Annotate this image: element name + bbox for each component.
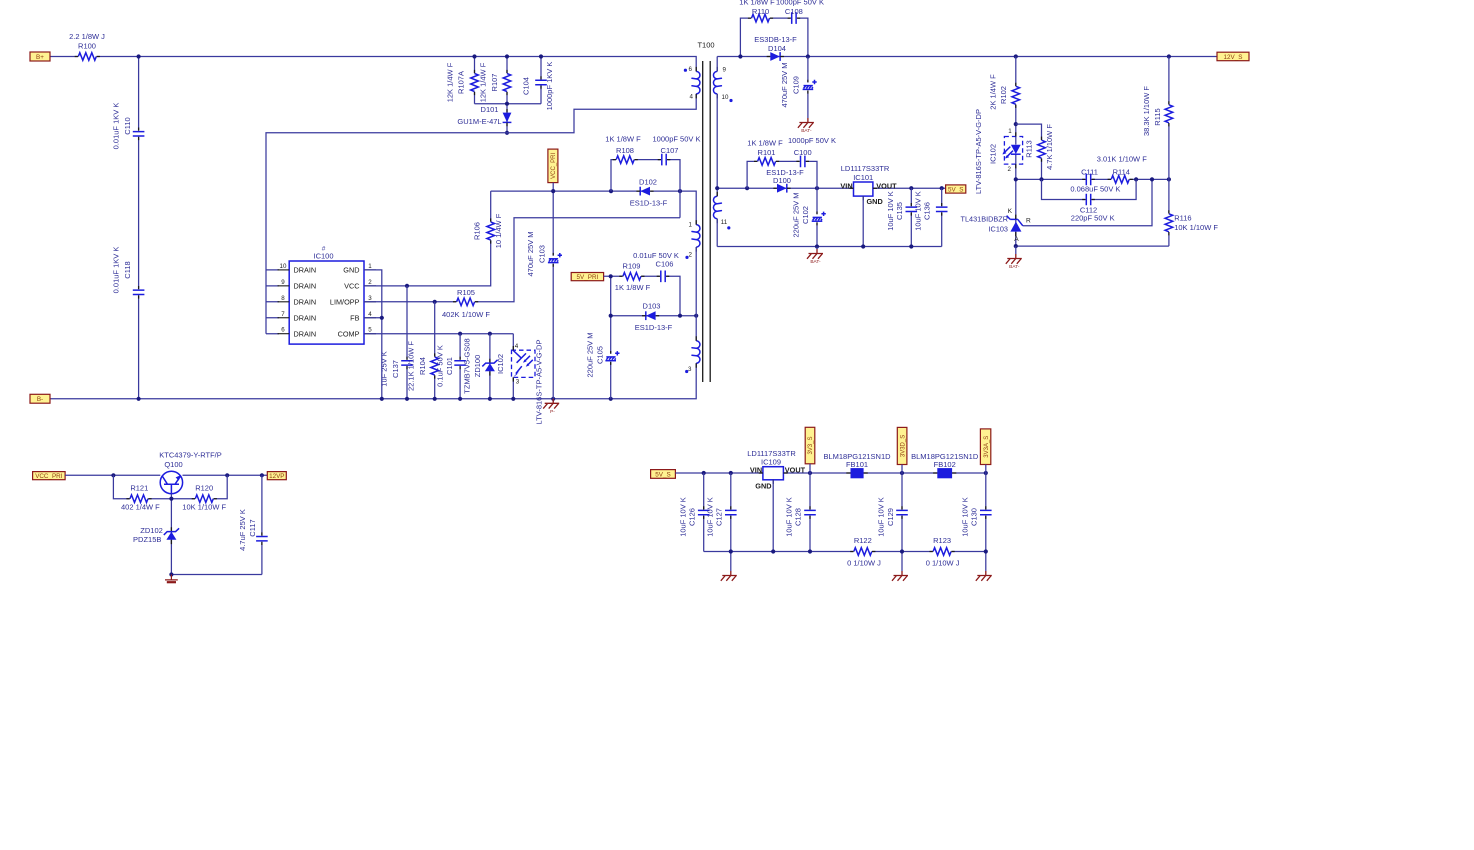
resistor R115 [1142, 86, 1174, 136]
junction Q100 rail [111, 473, 264, 477]
svg-text:R: R [1026, 218, 1031, 225]
svg-text:1K 1/8W F: 1K 1/8W F [739, 0, 775, 7]
svg-text:R121: R121 [130, 484, 148, 493]
svg-text:C102: C102 [801, 206, 810, 224]
svg-text:4: 4 [368, 311, 372, 318]
svg-text:R122: R122 [854, 536, 872, 545]
node 5V_S bottom [651, 470, 676, 479]
wire IC109 GND pin [772, 480, 774, 552]
svg-text:3V3_S: 3V3_S [808, 437, 814, 455]
svg-text:FB101: FB101 [846, 460, 868, 469]
svg-text:VCC_PRI: VCC_PRI [551, 153, 557, 179]
svg-text:3.01K 1/10W F: 3.01K 1/10W F [1097, 155, 1147, 164]
transformer secondary winding 9-10 [713, 67, 732, 103]
svg-text:DRAIN: DRAIN [294, 266, 317, 275]
svg-text:8: 8 [281, 295, 285, 302]
svg-text:2: 2 [689, 252, 693, 259]
wire IC100 pin5 COMP row [364, 333, 513, 335]
svg-text:11: 11 [721, 219, 728, 226]
capacitor C129 [877, 497, 909, 537]
diode D100 [766, 168, 804, 193]
wire secondary 5V rail [717, 187, 945, 189]
svg-text:C108: C108 [785, 7, 803, 16]
wire R102 LED TL431 column [1015, 57, 1017, 247]
ground under C127 [721, 571, 737, 581]
wire C127 column to ground [730, 473, 732, 571]
wire 3V3D_S stub and C129 column to ground [901, 465, 903, 572]
svg-text:COMP: COMP [338, 329, 360, 338]
wire 5V_PRI row R109 C106 loop [604, 276, 680, 315]
resistor R101 [747, 139, 783, 167]
wire 3V3A_S stub and C130 column to ground [985, 465, 987, 572]
zener diode ZD102 [133, 526, 179, 544]
svg-text:DRAIN: DRAIN [294, 313, 317, 322]
svg-text:C104: C104 [522, 77, 531, 95]
wire 5V_S rail to IC109 and ferrite beads [675, 472, 985, 474]
svg-text:C128: C128 [794, 508, 803, 526]
svg-text:220pF 50V K: 220pF 50V K [1071, 214, 1115, 223]
svg-text:0.01uF 1KV K: 0.01uF 1KV K [112, 103, 121, 150]
svg-text:0.068uF 50V K: 0.068uF 50V K [1070, 185, 1120, 194]
svg-text:D104: D104 [768, 44, 786, 53]
svg-text:0.1uF 50V K: 0.1uF 50V K [435, 345, 444, 387]
ground BAT- under C102 [807, 247, 823, 266]
svg-text:BAT-: BAT- [810, 259, 821, 265]
node VCC_PRI bottom left [33, 472, 66, 480]
wire IC100 pin3 LIM/OPP to R105 loop [364, 218, 680, 302]
svg-text:PDZ15B: PDZ15B [133, 535, 161, 544]
junction 3V3 rail [702, 471, 988, 475]
svg-text:C126: C126 [688, 508, 697, 526]
svg-text:IC102: IC102 [496, 354, 505, 374]
regulator IC109 LD1117 [747, 449, 805, 490]
svg-text:5V_S: 5V_S [948, 186, 963, 193]
ground BAT- under C109 [798, 118, 814, 128]
svg-text:22.1K 1/10W F: 22.1K 1/10W F [407, 341, 416, 391]
node 3V3D_S [897, 427, 907, 464]
svg-text:3: 3 [516, 379, 520, 386]
svg-text:ES1D-13-F: ES1D-13-F [635, 323, 673, 332]
svg-text:10uF 10V K: 10uF 10V K [705, 497, 714, 537]
wire VCC_PRI rail to transformer pin 1 [491, 191, 697, 225]
svg-text:IC103: IC103 [989, 225, 1008, 234]
node 12VP [267, 472, 286, 480]
svg-text:LTV-816S-TP-A5-V-G-DP: LTV-816S-TP-A5-V-G-DP [535, 340, 544, 425]
shunt reference IC103 TL431 [961, 208, 1031, 243]
wire bottom left ground rail [171, 574, 262, 576]
capacitor C126 [678, 497, 710, 537]
svg-text:IC102: IC102 [989, 144, 998, 164]
svg-text:10K 1/10W F: 10K 1/10W F [182, 503, 226, 512]
node 5V_PRI [571, 273, 603, 282]
svg-text:5V_PRI: 5V_PRI [577, 274, 599, 281]
svg-text:9: 9 [281, 279, 285, 286]
svg-text:VOUT: VOUT [876, 181, 897, 190]
resistor R107 [479, 62, 513, 102]
wire left vertical bulk rail [138, 57, 140, 399]
svg-text:4: 4 [515, 343, 519, 350]
svg-text:TZMB7V5-GS08: TZMB7V5-GS08 [463, 338, 472, 393]
junction snubber top rail [472, 54, 543, 105]
ground under C129 [892, 571, 908, 581]
svg-text:TL431BIDBZR: TL431BIDBZR [961, 214, 1008, 223]
resistor R122 [847, 536, 881, 568]
svg-text:12K 1/4W F: 12K 1/4W F [446, 62, 455, 102]
node 3V3_S [805, 427, 815, 464]
resistor R105 [442, 288, 490, 319]
svg-text:10: 10 [722, 94, 729, 101]
svg-text:1000pF 1KV K: 1000pF 1KV K [545, 62, 554, 111]
node 3V3A_S [980, 429, 990, 465]
capacitor C130 [960, 497, 992, 537]
wire secondary center tap [716, 57, 718, 197]
capacitor C101 [435, 345, 466, 387]
capacitor C102 electrolytic [791, 192, 826, 237]
svg-text:12V_S: 12V_S [1224, 54, 1243, 61]
svg-text:R107: R107 [490, 74, 499, 92]
wire C126 column [703, 473, 705, 552]
resistor R114 [1097, 155, 1147, 185]
svg-text:3V3D_S: 3V3D_S [900, 435, 906, 457]
capacitor C118 [112, 247, 146, 299]
svg-text:D101: D101 [481, 105, 499, 114]
svg-text:402 1/4W F: 402 1/4W F [121, 503, 160, 512]
capacitor C111 [1081, 167, 1098, 186]
svg-text:D102: D102 [639, 178, 657, 187]
diode D104 [754, 35, 797, 61]
node VCC_PRI vertical label [548, 149, 558, 183]
svg-text:B+: B+ [36, 54, 44, 61]
capacitor C136 [913, 191, 948, 231]
diode D102 [630, 178, 668, 208]
svg-text:C127: C127 [715, 508, 724, 526]
capacitor C109 electrolytic [780, 62, 817, 107]
transformer primary winding 3 [685, 336, 700, 373]
svg-text:7: 7 [281, 311, 285, 318]
capacitor C110 [112, 103, 146, 150]
resistor R120 [182, 484, 226, 512]
wire R104 column [434, 302, 436, 399]
transistor Q100 [159, 450, 222, 493]
wire C109 column [807, 57, 809, 119]
junction secondary ground rail [815, 244, 914, 248]
ferrite bead FB101 [823, 452, 891, 478]
svg-text:IC101: IC101 [853, 173, 873, 182]
wire VCC_PRI to Q100 and 12VP [65, 474, 267, 476]
capacitor C103 electrolytic [526, 231, 562, 276]
svg-text:10: 10 [280, 263, 287, 270]
wire B+ top rail to transformer pin 6 [50, 57, 696, 72]
svg-text:220uF 25V M: 220uF 25V M [791, 192, 800, 237]
svg-text:A: A [1014, 236, 1019, 243]
opto transistor IC102 photo side [496, 343, 535, 386]
junction ground node [169, 572, 173, 576]
svg-text:1: 1 [1008, 128, 1012, 135]
svg-text:R113: R113 [1024, 140, 1033, 157]
node 5V_S [946, 185, 966, 194]
capacitor C112 [1071, 193, 1115, 223]
wire C137 column [406, 286, 408, 399]
svg-text:1000pF 50V K: 1000pF 50V K [776, 0, 824, 7]
junction D103 row [609, 314, 699, 318]
svg-text:1: 1 [368, 263, 372, 270]
resistor R106 [473, 213, 504, 248]
svg-text:1K 1/8W F: 1K 1/8W F [747, 139, 783, 148]
wire TL431 ground rail [1016, 245, 1169, 247]
transformer primary winding 1-2 [685, 220, 700, 259]
svg-text:KTC4379-Y-RTF/P: KTC4379-Y-RTF/P [159, 450, 222, 459]
svg-text:IC109: IC109 [761, 457, 781, 466]
diode D103 [635, 302, 673, 332]
wire C135 column [910, 188, 912, 246]
svg-text:470uF 25V M: 470uF 25V M [780, 62, 789, 107]
svg-text:R109: R109 [623, 261, 641, 270]
svg-text:C137: C137 [391, 360, 400, 378]
svg-text:BAT-: BAT- [801, 128, 812, 134]
svg-text:C117: C117 [248, 519, 257, 536]
svg-text:DRAIN: DRAIN [294, 297, 317, 306]
wire 12V_S top rail [717, 56, 1217, 58]
svg-text:ZD102: ZD102 [140, 526, 163, 535]
ground under C130 [976, 571, 992, 581]
svg-text:1K 1/8W F: 1K 1/8W F [605, 134, 641, 143]
svg-text:1K 1/8W F: 1K 1/8W F [615, 283, 651, 292]
resistor R116 [1164, 210, 1218, 235]
svg-text:R104: R104 [418, 357, 427, 375]
svg-text:K: K [1008, 208, 1013, 215]
junction R113 branch [1014, 122, 1018, 126]
svg-text:R123: R123 [933, 536, 951, 545]
svg-text:10uF 10V K: 10uF 10V K [678, 497, 687, 537]
wire IC100 pin1 GND and pin4 FB to B- rail [364, 270, 382, 399]
svg-text:LIM/OPP: LIM/OPP [330, 297, 360, 306]
svg-text:6: 6 [689, 66, 693, 73]
wire C102 column [816, 188, 818, 246]
wire ZD100 column [489, 334, 491, 399]
resistor R107A [446, 62, 480, 102]
node B- [30, 394, 50, 403]
svg-text:D103: D103 [643, 302, 661, 311]
svg-text:R116: R116 [1174, 214, 1191, 223]
zener diode ZD100 [463, 338, 498, 393]
svg-text:1000pF 50V K: 1000pF 50V K [653, 134, 701, 143]
svg-text:38.3K 1/10W F: 38.3K 1/10W F [1142, 86, 1151, 136]
svg-text:470uF 25V M: 470uF 25V M [526, 231, 535, 276]
wire secondary ground rail [717, 246, 942, 248]
svg-text:0 1/10W J: 0 1/10W J [926, 559, 960, 568]
junction B- rail [137, 397, 613, 401]
svg-text:R101: R101 [758, 148, 776, 157]
resistor R104 [407, 341, 440, 391]
svg-text:3: 3 [688, 366, 692, 373]
svg-text:B-: B- [37, 396, 43, 403]
svg-text:2: 2 [1007, 166, 1011, 173]
svg-text:DRAIN: DRAIN [294, 329, 317, 338]
wire transformer pin4 loop to IC100 drains [266, 94, 696, 334]
svg-text:D100: D100 [773, 176, 791, 185]
svg-text:VOUT: VOUT [785, 466, 806, 475]
svg-text:C101: C101 [445, 357, 454, 375]
svg-text:IC100: IC100 [313, 252, 333, 261]
svg-text:ES3DB-13-F: ES3DB-13-F [754, 35, 797, 44]
junction B+ rail [137, 54, 141, 58]
svg-text:0 1/10W J: 0 1/10W J [847, 559, 881, 568]
svg-text:C129: C129 [886, 508, 895, 526]
transformer T100 core [697, 41, 714, 383]
svg-text:VIN: VIN [750, 466, 762, 475]
wire R108 C107 snubber loop [611, 160, 680, 218]
resistor R110 [739, 0, 775, 23]
transformer secondary winding 11 [713, 192, 730, 230]
junction FB [380, 316, 384, 320]
wire 3V3 ground rail [704, 551, 986, 553]
svg-text:R100: R100 [78, 41, 96, 50]
svg-text:3V3A_S: 3V3A_S [984, 436, 990, 458]
svg-text:R115: R115 [1153, 108, 1162, 125]
junction 5V_PRI [609, 274, 613, 278]
svg-text:DRAIN: DRAIN [294, 281, 317, 290]
wire IC100 pin2 VCC to R106 [364, 191, 491, 286]
wire IC100 drain pin stubs [266, 270, 279, 334]
svg-text:C107: C107 [661, 146, 679, 155]
wire R101 C100 loop [747, 161, 817, 188]
svg-text:R105: R105 [457, 288, 475, 297]
junction LIM row [433, 300, 437, 304]
wire C112 loop [1042, 179, 1137, 199]
svg-text:ES1D-13-F: ES1D-13-F [630, 198, 668, 207]
svg-text:10K 1/10W F: 10K 1/10W F [1174, 223, 1218, 232]
wire IC102 phototransistor column [512, 334, 514, 399]
capacitor C127 [705, 497, 737, 537]
ground P- primary [543, 399, 559, 415]
wire IC101 GND pin [862, 196, 864, 246]
junction base node [169, 497, 173, 501]
wire C136 column [941, 188, 943, 246]
capacitor C107 [653, 134, 701, 166]
wire C101 column [459, 334, 461, 399]
svg-text:1000pF 50V K: 1000pF 50V K [788, 136, 836, 145]
svg-text:10uF 10V K: 10uF 10V K [960, 497, 969, 537]
svg-text:10uF 10V K: 10uF 10V K [784, 497, 793, 537]
svg-text:R108: R108 [616, 146, 634, 155]
wire C117 column [261, 475, 263, 574]
svg-text:4.7uF 25V K: 4.7uF 25V K [238, 509, 247, 551]
wire R121 R120 base loop [113, 475, 227, 498]
junction VCC rail [551, 189, 682, 193]
wire snubber verticals and bottom bar [475, 57, 542, 133]
junction D101 anode rail [505, 131, 509, 135]
svg-text:C105: C105 [596, 346, 605, 364]
svg-text:LD1117S33TR: LD1117S33TR [841, 164, 890, 173]
svg-text:GND: GND [343, 266, 359, 275]
capacitor C117 [238, 509, 268, 551]
svg-text:10uF 10V K: 10uF 10V K [913, 191, 922, 231]
wire Q100 base to ZD102 to ground [170, 494, 172, 575]
wire R115 column [1168, 57, 1170, 180]
svg-text:GND: GND [755, 481, 771, 490]
capacitor C108 [776, 0, 824, 25]
svg-text:Q100: Q100 [164, 460, 182, 469]
regulator IC101 LD1117 [840, 164, 897, 206]
junction secondary 5V rail [715, 186, 944, 190]
svg-text:4.7K 1/10W F: 4.7K 1/10W F [1045, 124, 1054, 170]
junction feedback row [1014, 177, 1171, 181]
svg-text:ZD100: ZD100 [473, 355, 482, 378]
svg-text:BAT-: BAT- [1009, 264, 1020, 270]
svg-text:C110: C110 [123, 117, 132, 134]
wire 3V3_S stub and C128 column [809, 464, 811, 552]
wire VCC_PRI label stub and C103 column to P- ground [552, 183, 554, 402]
svg-text:R110: R110 [752, 7, 769, 16]
junction 12V rail [738, 54, 1171, 58]
svg-text:2K 1/4W F: 2K 1/4W F [989, 74, 998, 110]
svg-text:FB102: FB102 [934, 460, 956, 469]
svg-text:10uF 10V K: 10uF 10V K [886, 191, 895, 231]
junction VCC row [405, 284, 409, 288]
capacitor C105 electrolytic [585, 332, 619, 377]
capacitor C100 [788, 136, 836, 168]
wire feedback row [1016, 178, 1169, 180]
ferrite bead FB102 [911, 452, 979, 478]
resistor R108 [605, 134, 641, 164]
svg-text:2.2 1/8W J: 2.2 1/8W J [69, 32, 105, 41]
ground earth under ZD102 [165, 575, 178, 583]
svg-text:C100: C100 [794, 148, 812, 157]
capacitor C128 [784, 497, 816, 537]
wire D103 row [611, 315, 697, 317]
capacitor C104 [522, 62, 555, 111]
wire R116 column [1168, 179, 1170, 246]
resistor R123 [926, 536, 960, 568]
svg-text:6: 6 [281, 327, 285, 334]
svg-text:0.01uF 1KV K: 0.01uF 1KV K [112, 247, 121, 294]
junction TL431 ground [1014, 244, 1018, 248]
wire R113 branch [1016, 124, 1042, 179]
svg-text:LTV-816S-TP-A5-V-G-DP: LTV-816S-TP-A5-V-G-DP [974, 109, 983, 194]
svg-text:R107A: R107A [457, 71, 466, 94]
svg-text:T100: T100 [697, 41, 714, 50]
svg-text:VCC_PRI: VCC_PRI [35, 473, 63, 480]
svg-text:C130: C130 [970, 508, 979, 526]
svg-text:1: 1 [689, 221, 693, 228]
opto LED IC102 side [989, 128, 1023, 173]
ground BAT- under TL431 [1006, 246, 1022, 270]
svg-text:R106: R106 [473, 222, 482, 240]
svg-text:C103: C103 [537, 245, 546, 263]
svg-text:VCC: VCC [344, 281, 359, 290]
diode D101 [457, 105, 511, 126]
svg-text:5V_S: 5V_S [655, 471, 670, 478]
svg-text:3: 3 [368, 295, 372, 302]
junction 3V3 ground rail [729, 549, 988, 553]
resistor R121 [121, 484, 160, 512]
wire D104 R110 C108 loop [740, 18, 808, 56]
svg-text:4: 4 [690, 93, 694, 100]
svg-text:VIN: VIN [840, 181, 852, 190]
svg-text:FB: FB [350, 313, 359, 322]
resistor R113 [1024, 124, 1054, 170]
capacitor C137 [380, 351, 414, 386]
wire TL431 R pin to feedback row [1023, 179, 1152, 225]
capacitor C135 [886, 191, 918, 231]
svg-text:C118: C118 [123, 261, 132, 278]
op-amp U IC100 power controller box [278, 246, 377, 345]
svg-text:12K 1/4W F: 12K 1/4W F [479, 62, 488, 102]
svg-text:1uF 25V K: 1uF 25V K [380, 351, 389, 386]
node 12V_S [1217, 52, 1249, 61]
svg-text:C111: C111 [1081, 167, 1098, 176]
svg-text:C109: C109 [791, 76, 800, 94]
